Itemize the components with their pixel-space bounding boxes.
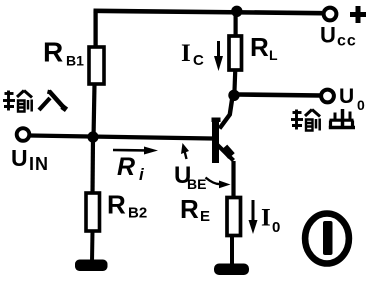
figure number circled 1 (305, 214, 349, 264)
terminal U0 circle (321, 90, 334, 103)
svg-text:R: R (107, 190, 126, 220)
svg-text:IN: IN (29, 154, 49, 174)
resistor RB2 (86, 193, 100, 231)
resistor RL (229, 36, 242, 70)
terminal Ucc circle (324, 8, 337, 21)
svg-text:U: U (339, 85, 354, 108)
transistor Q1 collector stroke (220, 97, 233, 129)
wire left rail upper segment (top rail to RB1) (93, 10, 97, 49)
svg-text:cc: cc (337, 33, 357, 50)
wire base (input to transistor base) (30, 136, 212, 139)
label 输出 output (291, 109, 355, 131)
char 输 (291, 110, 320, 131)
svg-text:U: U (11, 145, 28, 171)
resistor RB1 (89, 47, 104, 84)
svg-text:C: C (193, 52, 204, 69)
svg-text:L: L (269, 47, 278, 63)
svg-text:BE: BE (187, 176, 206, 192)
char 出 (329, 109, 355, 128)
wire RE to ground (230, 235, 234, 266)
arrow Ri (input resistance) (113, 149, 150, 152)
transistor Q1 base bar (212, 118, 219, 164)
svg-text:R: R (180, 194, 199, 224)
svg-text:0: 0 (272, 219, 280, 236)
wire collector vertical (RL bottom to output node) (234, 69, 235, 96)
arrow IC current (217, 41, 220, 62)
svg-text:I: I (181, 40, 191, 67)
svg-text:R: R (43, 37, 63, 68)
plus sign supply polarity (350, 12, 366, 17)
label 输入 input (3, 90, 67, 112)
wire base node to RB2 (90, 137, 95, 195)
svg-text:B1: B1 (66, 53, 84, 69)
svg-text:E: E (200, 208, 210, 225)
svg-text:0: 0 (357, 97, 365, 113)
ground right (214, 264, 249, 276)
wire top rail from left rail to Ucc terminal (94, 11, 323, 13)
svg-text:B2: B2 (128, 205, 147, 222)
arrow I0 current (252, 200, 255, 226)
wire RB1 to base node (94, 84, 95, 139)
wire RB2 to ground (90, 231, 95, 262)
arrow UBE to emitter (206, 178, 221, 185)
transistor Q1 emitter stroke with arrowhead (217, 145, 234, 161)
char 入 (39, 90, 67, 110)
node base junction (87, 131, 98, 142)
wire RL top (top rail to RL) (234, 13, 238, 37)
svg-text:U: U (320, 23, 336, 48)
node output junction (228, 90, 239, 101)
arrow UBE to base (184, 149, 187, 159)
terminal input circle (17, 128, 30, 141)
wire emitter vertical (transistor to RE) (231, 161, 235, 199)
svg-text:R: R (250, 32, 269, 62)
resistor RE (227, 198, 241, 236)
ground left (75, 260, 108, 272)
wire output (junction to U0 terminal) (238, 95, 321, 96)
svg-text:R: R (117, 153, 135, 181)
node top rail junction (231, 6, 242, 17)
svg-text:I: I (261, 205, 271, 232)
char 输 (3, 91, 32, 112)
